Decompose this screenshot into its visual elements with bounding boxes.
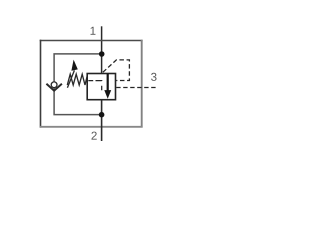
pilot line (dashed loop to right side of valve) xyxy=(103,60,129,81)
port 2 label xyxy=(91,132,96,140)
check valve CV1: ball xyxy=(51,82,57,88)
pilot passage (internal dashed L) xyxy=(88,81,101,91)
port 1 label xyxy=(91,27,96,35)
flow arrow shaft inside valve xyxy=(107,74,109,91)
drain line to port 3 (dashed) xyxy=(116,87,156,89)
envelope right edge xyxy=(141,40,143,128)
envelope bottom edge xyxy=(40,126,143,128)
valve body U1 (square) xyxy=(87,74,115,100)
flow arrow head inside valve xyxy=(104,90,111,99)
node: bottom junction xyxy=(99,112,105,118)
check valve CV1: seat xyxy=(46,84,62,91)
spring adjustment arrow head xyxy=(71,60,77,71)
wire: port 2 vertical line xyxy=(101,100,103,141)
spring (adjustable) xyxy=(67,74,87,85)
spring adjustment arrow shaft xyxy=(67,70,74,87)
port 3 label xyxy=(151,73,156,81)
wire: port 1 vertical line xyxy=(101,26,103,73)
envelope left edge xyxy=(40,40,42,128)
wire: check valve branch (top, left, bottom) xyxy=(54,54,102,115)
node: top junction xyxy=(99,51,105,57)
envelope top edge xyxy=(40,40,143,42)
